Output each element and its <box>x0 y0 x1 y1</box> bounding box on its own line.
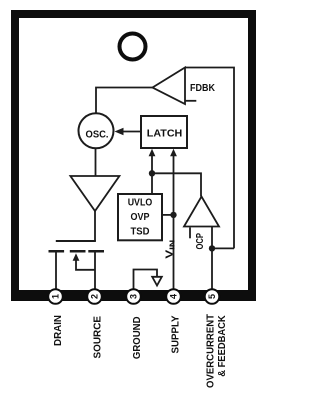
svg-text:GROUND: GROUND <box>131 316 143 359</box>
driver buffer <box>70 176 119 211</box>
svg-text:FDBK: FDBK <box>190 82 215 94</box>
pin 5 <box>205 289 220 304</box>
label GROUND pin 3 <box>131 316 143 359</box>
transistor Q1 gate bar <box>56 240 96 242</box>
wire FDBK input from right rail <box>185 68 234 249</box>
label OVERCURRENT pin 5 line 1 <box>204 313 216 388</box>
pin 1 <box>48 289 63 304</box>
wire source to pin 2 <box>94 253 96 293</box>
wire LATCH to OSC <box>119 131 141 133</box>
label SOURCE pin 2 <box>91 316 103 359</box>
svg-text:1: 1 <box>51 294 61 299</box>
wire OSC to driver <box>95 148 97 176</box>
body arrow <box>73 253 80 260</box>
latch LATCH <box>141 116 187 148</box>
wire drain to pin 1 <box>55 253 57 293</box>
wire junction to right rail <box>212 247 234 249</box>
op-amp FDBK <box>153 68 186 105</box>
wire UVLO output to latch <box>151 156 153 194</box>
node junction VIN/UVLO <box>170 212 176 218</box>
svg-text:SUPPLY: SUPPLY <box>170 316 182 354</box>
svg-text:OCP: OCP <box>195 233 206 250</box>
label FEEDBACK pin 5 line 2 <box>216 315 228 377</box>
wire VIN supply line pin 4 to latch <box>173 156 175 292</box>
pin 2 <box>87 289 102 304</box>
top index circle <box>120 34 146 60</box>
svg-text:UVLO: UVLO <box>128 197 153 208</box>
oscillator OSC <box>79 113 114 148</box>
ground arrow <box>152 277 162 286</box>
block UVLO OVP TSD <box>118 194 162 240</box>
svg-text:2: 2 <box>90 294 100 299</box>
svg-text:3: 3 <box>129 294 139 299</box>
transistor Q1 channel segments <box>49 250 105 253</box>
comparator OCP <box>184 197 219 227</box>
OCP input stub <box>189 228 191 239</box>
svg-text:LATCH: LATCH <box>147 128 183 140</box>
wire pin 5 to OCP input <box>211 227 213 293</box>
wire FDBK output to OSC <box>96 88 153 114</box>
svg-text:SOURCE: SOURCE <box>91 316 103 359</box>
svg-text:5: 5 <box>207 294 217 299</box>
label OCP <box>195 233 206 250</box>
wire OCP output to junction <box>152 173 201 196</box>
svg-text:OVP: OVP <box>131 212 150 223</box>
svg-text:OSC.: OSC. <box>86 129 109 141</box>
svg-text:4: 4 <box>169 294 179 299</box>
package outline U1 <box>11 10 256 301</box>
label SUPPLY pin 4 <box>170 316 182 354</box>
node junction UVLO/OCP <box>149 170 155 176</box>
svg-text:& FEEDBACK: & FEEDBACK <box>216 315 228 377</box>
wire driver to gate <box>94 211 96 241</box>
svg-text:OVERCURRENT: OVERCURRENT <box>204 313 216 388</box>
wire UVLO to VIN line <box>162 214 174 216</box>
label VIN <box>165 240 177 259</box>
svg-text:DRAIN: DRAIN <box>52 315 64 346</box>
label DRAIN pin 1 <box>52 315 64 346</box>
wire ground symbol from pin 3 <box>134 270 158 293</box>
node junction pin5/right rail <box>209 245 215 251</box>
svg-text:TSD: TSD <box>131 226 150 237</box>
pin 3 <box>126 289 141 304</box>
pin 4 <box>166 289 181 304</box>
FDBK input stub <box>185 100 196 102</box>
